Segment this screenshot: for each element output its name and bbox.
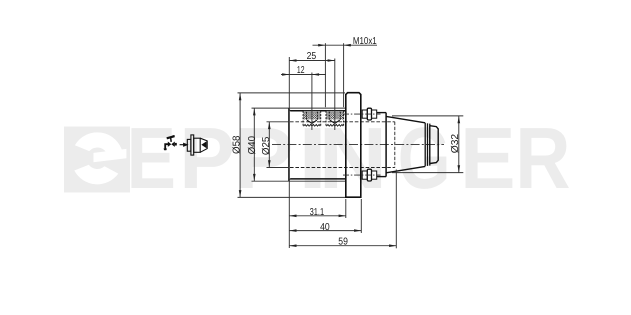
40 arrows — [289, 229, 296, 232]
dim line Ø40 — [253, 108, 255, 181]
set screw 1 — [303, 111, 321, 126]
cylinder Ø40 top edge thick — [290, 110, 346, 112]
end cap — [430, 126, 438, 164]
svg-text:P: P — [179, 110, 235, 207]
svg-text:E: E — [127, 110, 177, 207]
upper arc of e-swirl — [75, 132, 123, 154]
cylinder Ø40 bottom edge thick — [290, 178, 346, 180]
Ø25 arrows — [268, 122, 271, 129]
bolt axis top — [343, 113, 381, 115]
cylinder left face — [288, 108, 290, 181]
ext lines Ø32 — [392, 115, 463, 117]
icon mini part insert arrow — [201, 141, 206, 148]
ext line left face vertical — [288, 57, 290, 248]
ext line flange right bottom — [360, 199, 362, 233]
icon tap handle — [167, 136, 174, 138]
M10 arrows outside — [318, 44, 325, 47]
taper groove lines — [425, 123, 430, 166]
svg-text:N: N — [318, 110, 387, 207]
ext line screw2 center — [334, 59, 336, 131]
taper face — [385, 113, 387, 177]
svg-text:12: 12 — [297, 65, 305, 76]
dim line M10x1 — [313, 44, 378, 46]
svg-text:Ø40: Ø40 — [247, 136, 258, 155]
dim line 31.1 — [289, 215, 346, 217]
svg-text:40: 40 — [320, 222, 330, 233]
part axis centerline — [272, 144, 444, 146]
watermark logo square — [64, 127, 130, 193]
svg-text:M10x1: M10x1 — [353, 36, 377, 47]
set screw 2 — [326, 111, 344, 126]
bar of e-swirl — [94, 149, 127, 162]
icon mini part — [187, 135, 207, 155]
svg-text:25: 25 — [307, 51, 317, 62]
svg-text:P: P — [234, 110, 294, 207]
svg-text:G: G — [398, 110, 451, 207]
svg-text:Ø25: Ø25 — [261, 136, 272, 155]
flange — [346, 93, 361, 198]
ext lines Ø25 — [267, 121, 290, 123]
svg-text:E: E — [460, 110, 516, 207]
ext line screw1 center — [311, 73, 313, 131]
cylinder corner chamfers — [289, 110, 291, 180]
dim texts — [231, 36, 461, 247]
dim line Ø58 — [239, 93, 241, 197]
dim line 25 — [289, 60, 335, 62]
taper bottom slope — [386, 166, 425, 172]
25 arrows inside — [289, 59, 296, 62]
ext lines Ø58 — [238, 92, 346, 94]
arrows — [239, 44, 460, 247]
dim line 59 — [289, 245, 396, 247]
bore Ø25 hidden top — [290, 121, 395, 123]
dim line Ø25 — [268, 122, 270, 167]
icon arrow — [180, 143, 188, 146]
Ø32 arrows — [458, 116, 461, 123]
watermark text EPPINGER — [127, 110, 571, 207]
Ø40 arrows — [253, 108, 256, 115]
svg-text:59: 59 — [338, 237, 348, 248]
bolt axis bottom — [343, 174, 381, 176]
ext lines M10 — [324, 43, 326, 107]
bore end hidden vertical — [394, 122, 396, 168]
dim line Ø32 — [458, 116, 460, 173]
taper top slope — [386, 116, 425, 122]
59 arrows — [289, 244, 296, 247]
bolt top — [362, 108, 377, 120]
dim line 40 — [289, 230, 361, 232]
bore Ø25 hidden bottom — [290, 167, 395, 169]
bolt bottom — [362, 169, 377, 181]
dim line 12 — [281, 74, 326, 76]
svg-text:Ø58: Ø58 — [231, 135, 242, 154]
icon tap spout — [165, 144, 168, 149]
svg-text:Ø32: Ø32 — [450, 133, 461, 153]
cylinder2 between flange and taper — [377, 113, 386, 177]
31.1 arrows — [289, 215, 296, 218]
ext line bore end bottom — [395, 170, 397, 249]
watermark logo swirl — [74, 132, 126, 184]
svg-text:R: R — [515, 110, 570, 207]
cylinder Ø40 silhouette thin — [252, 108, 346, 181]
12 arrows outside — [282, 73, 289, 76]
lower arc of e-swirl — [74, 165, 118, 185]
ext line flange left bottom — [345, 199, 347, 218]
icon tap valve body (bowtie) — [164, 135, 177, 150]
icon tap outlet right — [175, 143, 177, 146]
svg-text:31.1: 31.1 — [310, 207, 325, 218]
Ø58 arrows — [239, 93, 242, 100]
